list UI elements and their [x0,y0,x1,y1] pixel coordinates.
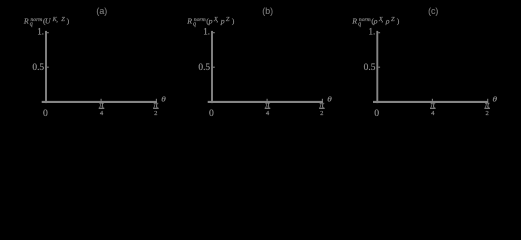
svg-text:(a): (a) [96,6,107,16]
svg-text:R: R [23,17,29,26]
svg-text:): ) [397,17,400,26]
svg-text:,: , [382,17,384,24]
panel (c) y-label R_q^norm(rho^X, rho^Z) [351,16,400,28]
svg-text:Z: Z [61,16,65,23]
svg-text:(c): (c) [428,6,438,16]
svg-text:R: R [351,17,357,26]
svg-text:,: , [56,17,58,24]
panel (a) axes [32,27,165,119]
svg-text:Z: Z [226,16,230,23]
svg-text:norm: norm [194,17,206,23]
svg-text:(b): (b) [262,6,273,16]
svg-text:U: U [45,17,52,26]
svg-text:Z: Z [391,16,395,23]
svg-text:): ) [67,17,70,26]
svg-text:,: , [217,17,219,24]
svg-text:norm: norm [31,17,43,23]
panel (b) axes [198,27,331,119]
svg-text:ρ: ρ [373,17,378,26]
panel (a) y-label R_q^norm(U^(K,Z)) [23,16,70,28]
svg-text:R: R [186,17,192,26]
svg-text:ρ: ρ [385,17,390,26]
svg-text:p: p [208,17,213,26]
panel (b) y-label R_q^norm(p^X, p^Z) [186,16,235,28]
svg-text:norm: norm [359,17,371,23]
svg-text:p: p [220,17,225,26]
svg-text:): ) [232,17,235,26]
panel (c) axes [364,27,497,119]
